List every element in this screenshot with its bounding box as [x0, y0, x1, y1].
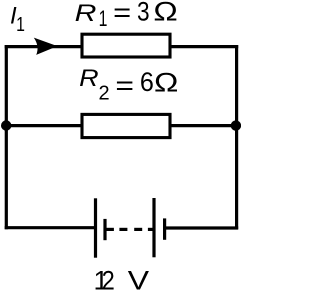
svg-text:V: V: [128, 266, 149, 293]
svg-text:2: 2: [99, 83, 110, 105]
battery cell 1 long plate (+): [94, 198, 97, 257]
label I1: [10, 2, 25, 36]
svg-text:R: R: [79, 65, 99, 92]
battery internal stub to cell 2: [148, 228, 154, 231]
wire: middle branch through R2: [5, 124, 238, 127]
node: right junction dot: [231, 120, 241, 130]
label R1 = 3 ohm: [75, 0, 178, 31]
svg-text:=: =: [115, 70, 134, 100]
battery cell 2 short plate (-): [163, 218, 166, 239]
label 12 V: [94, 266, 150, 293]
svg-text:=: =: [113, 0, 131, 28]
battery dash 2: [134, 228, 142, 231]
svg-text:6: 6: [140, 67, 154, 97]
svg-text:R: R: [75, 0, 97, 27]
svg-text:1: 1: [99, 6, 108, 31]
battery cell 1 short plate (-): [103, 219, 106, 240]
node: left junction dot: [1, 120, 11, 130]
battery dash 1: [119, 228, 127, 231]
resistor R1 (body): [82, 34, 170, 57]
wire: right vertical branch: [235, 45, 238, 229]
current arrow I1 on top wire: [34, 38, 58, 55]
wire: left vertical branch: [5, 45, 8, 229]
resistor R2 (body): [82, 114, 170, 137]
wire: bottom right segment from battery: [165, 226, 239, 229]
svg-text:Ω: Ω: [153, 0, 177, 27]
label R2 = 6 ohm: [79, 65, 178, 105]
battery B1 (12 V, two cells with dashed continuation): [96, 198, 165, 258]
svg-text:3: 3: [137, 0, 150, 27]
battery cell 2 long plate (+): [152, 198, 155, 257]
svg-text:2: 2: [102, 266, 115, 293]
svg-text:1: 1: [16, 14, 25, 36]
wire: top segment from left corner to right corner: [5, 45, 239, 48]
wire: bottom left segment to battery: [5, 226, 96, 229]
battery internal stub from cell 1: [106, 228, 114, 231]
svg-text:Ω: Ω: [154, 67, 178, 97]
